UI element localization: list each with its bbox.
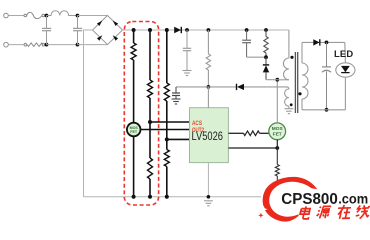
wire: DC+ top rail (123, 29, 289, 31)
wire (8, 15, 24, 17)
ground (C3) (183, 71, 192, 76)
dashed highlight box (124, 22, 158, 206)
wire line1 upper (133, 30, 135, 43)
node rail at R9 (264, 28, 268, 32)
svg-text:FET: FET (273, 132, 282, 138)
resistor R1 (131, 43, 136, 60)
svg-text:LV5026: LV5026 (192, 130, 224, 143)
node rail at C5 (245, 28, 249, 32)
logo small star (258, 213, 263, 218)
wire IC pin OUT1 (228, 132, 243, 134)
svg-text:LED: LED (334, 48, 353, 59)
node snubber (264, 55, 268, 59)
capacitor C6 (output) (322, 42, 331, 109)
resistor R9 (snubber) (264, 30, 268, 57)
node line3 top (165, 28, 169, 32)
wire Q2 source to sense (276, 140, 278, 148)
node output cap bottom (325, 108, 329, 112)
diode D-d (113, 35, 118, 40)
node VCC (207, 85, 211, 89)
wire (8, 44, 24, 46)
ground (IC) (204, 201, 213, 206)
wire line2 upper (149, 30, 151, 80)
node aux polarity dot (290, 103, 293, 106)
resistor R8 (sense) (275, 148, 279, 185)
node VT tap (165, 137, 169, 141)
svg-text:MOS: MOS (272, 126, 284, 132)
wire line1 lower (133, 136, 135, 197)
wire line2 lower (149, 179, 151, 197)
input terminal J2 (neutral) (4, 42, 9, 47)
node IC gnd (207, 195, 211, 199)
wire OUT2 net (140, 129, 189, 131)
LED D5 (336, 63, 355, 77)
capacitor C3 (183, 30, 191, 70)
node line3 bottom (165, 195, 169, 199)
logo red C swoosh (263, 177, 318, 222)
bridge rectifier BD1 (93, 16, 123, 45)
capacitor C5 (snubber) (242, 30, 251, 57)
svg-text:.com: .com (338, 190, 368, 206)
diode D-c (97, 35, 102, 40)
wire: bridge negative return (84, 30, 93, 197)
transformer T1 primary (283, 30, 288, 80)
node rail at C3 (185, 28, 189, 32)
wire line3 upper (166, 30, 168, 83)
capacitor C1 (X-cap) (42, 16, 51, 45)
logo hanzi dian (299, 206, 310, 219)
fuse F1 (24, 12, 45, 18)
node line2 bottom (148, 195, 152, 199)
resistor R5 (164, 150, 169, 167)
node ACS tap (148, 120, 152, 124)
wire line2 mid (149, 98, 151, 158)
transistor Q2 (MOS FET) (269, 123, 286, 140)
logo hanzi xian (355, 205, 370, 218)
transformer core (295, 52, 297, 113)
wire line1 to Q1 (133, 60, 135, 123)
wire IC GND pin (207, 163, 209, 197)
resistor R6 (startup) (206, 30, 210, 87)
wire snubber join (247, 56, 266, 58)
wire secondary top rail (302, 41, 345, 43)
logo hanzi zai (337, 205, 352, 219)
svg-text:CPS800: CPS800 (281, 191, 338, 208)
node secondary polarity dot (298, 92, 301, 95)
resistor R2 (148, 80, 153, 98)
node: RT1 to C1 (45, 43, 49, 47)
input terminal J1 (line) (4, 13, 9, 18)
diode D3 (clamp) (263, 57, 269, 79)
node line2 top (148, 28, 152, 32)
wire VT net (167, 138, 190, 140)
resistor R4 (164, 83, 169, 101)
wire to bridge AC top (78, 15, 108, 17)
wire: ground rail (84, 196, 262, 198)
transformer T1 secondary (302, 42, 308, 109)
resistor (NTC) RT1 (24, 43, 45, 47)
wire clamp to drain node (266, 79, 277, 81)
diode D-a (97, 21, 102, 26)
wire IC VCC pin (207, 87, 209, 108)
wire line3 lower (166, 167, 168, 197)
node drain (275, 78, 279, 82)
ground (aux) (284, 109, 293, 114)
wire ACS net (150, 121, 190, 123)
wire to bridge AC bottom (78, 44, 108, 46)
ground (C4) (172, 99, 181, 104)
node: fuse to C1 (45, 14, 49, 18)
wire VCC net (176, 86, 236, 88)
transistor Q1 (MOS FET) (127, 123, 141, 137)
node CS (275, 146, 279, 150)
logo CPS800.com (258, 177, 370, 222)
resistor R7 (gate) (244, 131, 260, 136)
diode D1 (rail) (174, 27, 181, 33)
diode D-b (113, 21, 118, 26)
node rail at R6 (207, 28, 211, 32)
svg-text:FET: FET (130, 130, 138, 134)
node: bottom rail at C2 (76, 43, 80, 47)
inductor L1 (choke) (47, 11, 78, 16)
wire drain node to primary (277, 79, 289, 81)
node line1 top (132, 28, 136, 32)
wire Q2 drain (276, 80, 278, 123)
wire (47, 44, 78, 46)
logo sparkle star (260, 206, 268, 213)
wire VCC to aux winding (244, 87, 289, 89)
transformer T1 aux winding (285, 89, 289, 108)
wire output right (344, 42, 347, 63)
capacitor C4 (VCC) (172, 87, 180, 99)
wire line3 mid (166, 101, 168, 150)
logo hanzi yuan (316, 206, 331, 218)
diode D4 (output) (313, 39, 320, 45)
IC U1 LV5026 (190, 108, 229, 163)
diode D2 (VCC) (237, 84, 245, 90)
wire LED to bottom (344, 77, 346, 110)
node: L1 out (76, 14, 80, 18)
wire gate to Q2 (260, 132, 270, 134)
wire IC pin CS (228, 147, 277, 149)
node line1 bottom (132, 195, 136, 199)
node primary polarity dot (290, 56, 293, 59)
resistor R3 (148, 158, 153, 179)
node output cap top (325, 41, 329, 45)
wire output bottom rail (302, 109, 345, 111)
capacitor C2 (X-cap) (73, 16, 82, 45)
